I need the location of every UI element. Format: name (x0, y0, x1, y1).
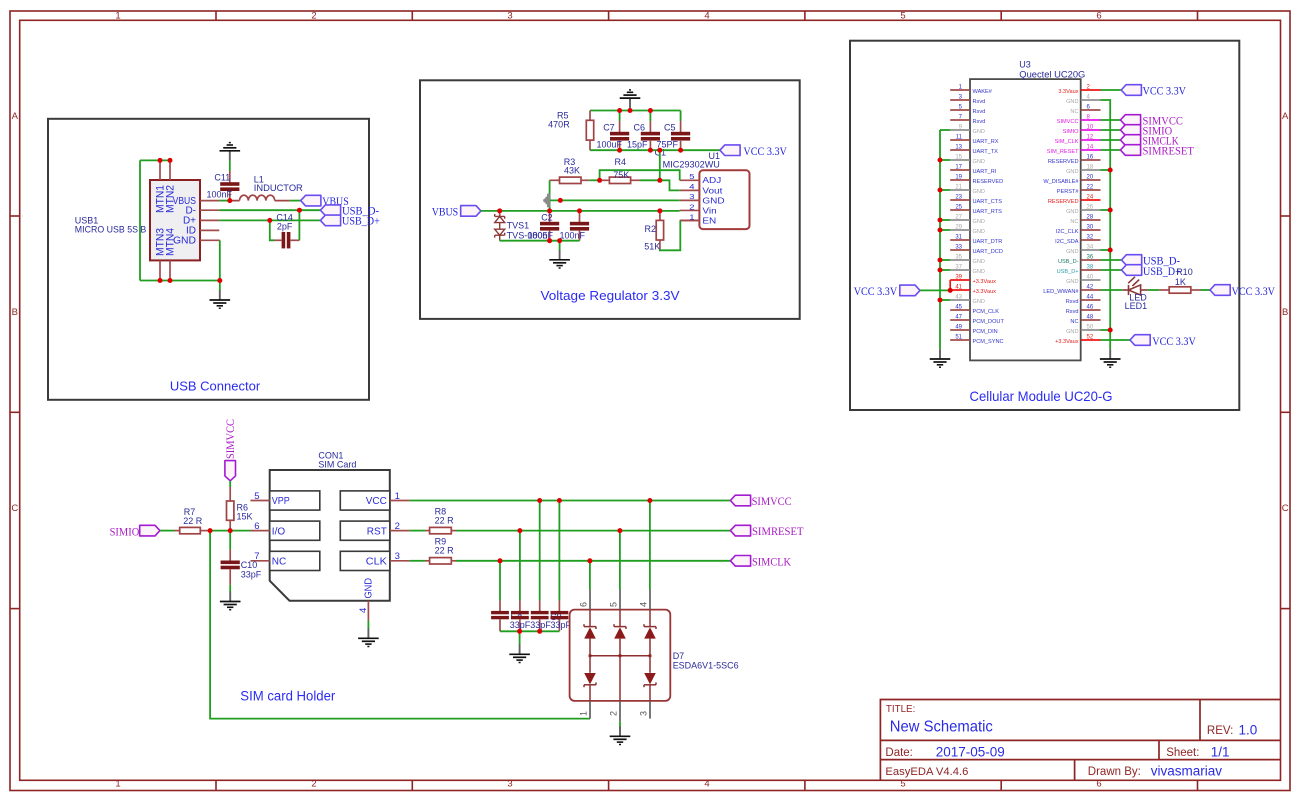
svg-text:SIM Card: SIM Card (318, 460, 356, 470)
junction (557, 238, 562, 243)
wire ADJ feedback (600, 170, 680, 180)
wire D+ to flag (219, 219, 320, 221)
svg-text:15: 15 (955, 155, 962, 161)
svg-text:2: 2 (689, 202, 695, 211)
pin cap C8 bottom (539, 619, 541, 631)
svg-text:R2: R2 (644, 224, 656, 234)
junction (1108, 328, 1113, 333)
frame column tick (804, 11, 806, 20)
wire VBUS to Vin (481, 210, 680, 212)
wire gnd pin to rail (1101, 249, 1111, 251)
wire caps gnd drop (519, 631, 521, 645)
capacitor C5 (671, 132, 690, 141)
svg-text:15pF: 15pF (627, 140, 648, 150)
svg-text:EasyEDA V4.4.6: EasyEDA V4.4.6 (885, 766, 968, 778)
svg-text:6: 6 (579, 602, 589, 607)
junction (228, 528, 233, 533)
resistor R3 (560, 177, 582, 183)
net flag SIMIO (1120, 125, 1140, 136)
svg-text:38: 38 (1087, 265, 1094, 271)
ground CON1 (358, 629, 379, 647)
wire down to cap C6cap (499, 561, 501, 601)
pin USB1 D+ (200, 219, 219, 221)
pin U3 35 GND (950, 259, 970, 261)
pin R9 left (425, 560, 430, 562)
junction (537, 629, 542, 634)
inductor L1 (230, 195, 290, 200)
pin U3 10 SIMIO (1081, 129, 1101, 131)
pin C5 bottom (680, 141, 682, 150)
wire caps gnd rail (500, 630, 559, 632)
wire CLK to D7 pin6 (589, 561, 591, 590)
wire gnd pin to rail (1101, 329, 1111, 331)
svg-text:6: 6 (254, 521, 259, 532)
svg-text:Quectel UC20G: Quectel UC20G (1019, 70, 1085, 80)
capacitor C8 (531, 611, 549, 619)
svg-text:26: 26 (1087, 205, 1094, 211)
svg-text:17: 17 (955, 165, 962, 171)
pin U3 29 GND (950, 229, 970, 231)
pin USB1 D- (200, 209, 219, 211)
capacitor C6cap (491, 611, 509, 619)
pin U3 3 Rsvd (950, 99, 970, 101)
net flag USB_D+ (320, 215, 340, 226)
svg-text:GND: GND (973, 189, 985, 195)
pin C7 bottom (619, 141, 621, 150)
svg-text:22 R: 22 R (435, 546, 455, 556)
svg-text:6: 6 (1096, 778, 1101, 789)
svg-text:1.0: 1.0 (1239, 723, 1258, 738)
net flag USB_D- (320, 205, 340, 216)
ground D7 (610, 727, 631, 745)
svg-text:A: A (1282, 111, 1289, 122)
wire C6 top (649, 111, 651, 122)
svg-text:29: 29 (955, 225, 962, 231)
pin R9 right (451, 560, 456, 562)
wire L1 to VBUS flag (290, 200, 301, 202)
wire U3 pin 21 to gnd rail (940, 189, 950, 191)
svg-text:Vin: Vin (702, 206, 716, 215)
pin USB1 GND (200, 239, 220, 241)
wire VBUS to junction (219, 200, 230, 202)
connector CON1 SIM Card body (270, 470, 390, 601)
pin CON1 6 I/O (251, 530, 270, 532)
svg-text:13: 13 (955, 145, 962, 151)
wire C14 up to D- (298, 210, 300, 240)
wire D+ down to C14 (270, 220, 274, 240)
svg-text:4: 4 (639, 602, 649, 607)
junction (498, 558, 503, 563)
svg-text:100nF: 100nF (560, 230, 586, 240)
svg-text:I/O: I/O (272, 526, 286, 537)
pin C2 bottom (549, 231, 551, 241)
pin R8 right (451, 530, 456, 532)
svg-text:1/1: 1/1 (1211, 745, 1230, 760)
svg-text:49: 49 (955, 325, 962, 331)
net flag SIMVCC right (730, 495, 750, 506)
junction (1108, 208, 1113, 213)
svg-text:2: 2 (311, 11, 316, 22)
svg-text:GND: GND (973, 229, 985, 235)
svg-text:25: 25 (955, 205, 962, 211)
svg-text:UART_CTS: UART_CTS (973, 199, 1003, 205)
wire VCC row (410, 500, 731, 502)
wire D7 pin2 to gnd (619, 722, 621, 729)
pin R7 left (175, 530, 180, 532)
svg-text:32: 32 (1087, 235, 1094, 241)
pin U3 44 Rsvd (1081, 299, 1101, 301)
svg-text:SIMRESET: SIMRESET (752, 524, 804, 538)
svg-text:VPP: VPP (272, 496, 290, 507)
pin C11 bottom (229, 191, 231, 201)
pin U1 2 Vin (680, 209, 700, 211)
net flag VCC 3.3V pin2 (1121, 85, 1141, 96)
pin U3 20 W_DISABLE# (1081, 179, 1101, 181)
junction (497, 208, 502, 213)
svg-text:TITLE:: TITLE: (886, 704, 915, 715)
svg-text:51: 51 (955, 335, 962, 341)
svg-text:I2C_CLK: I2C_CLK (1056, 229, 1079, 235)
svg-text:3: 3 (507, 11, 512, 22)
wire SIMIO net to D7 pin1 (210, 531, 590, 719)
svg-text:GND: GND (702, 196, 725, 205)
resistor R6 (227, 501, 234, 520)
wire R4 to node (640, 179, 660, 181)
ground top rail (620, 90, 641, 108)
svg-text:3: 3 (639, 711, 649, 716)
capacitor C3 (570, 222, 589, 231)
diode array D7 body (570, 610, 671, 701)
svg-text:4: 4 (689, 182, 695, 191)
svg-text:UART_RX: UART_RX (973, 139, 999, 145)
svg-text:3: 3 (689, 192, 695, 201)
svg-text:Rsvd: Rsvd (1066, 299, 1079, 305)
pin U3 45 PCM_CLK (950, 309, 970, 311)
svg-text:GND: GND (1066, 279, 1078, 285)
pin U3 42 LED_WWAN# (1081, 289, 1101, 291)
pin U3 17 UART_RI (950, 169, 970, 171)
junction (1108, 248, 1113, 253)
svg-text:C5: C5 (664, 123, 676, 133)
svg-text:GND: GND (973, 269, 985, 275)
pin R2 bottom (659, 240, 661, 250)
capacitor C7 (610, 132, 629, 141)
svg-text:44: 44 (1087, 295, 1094, 301)
pin R2 top (659, 211, 661, 221)
pin U3 23 UART_CTS (950, 199, 970, 201)
pin U3 12 SIM_CLK (1081, 139, 1101, 141)
svg-text:31: 31 (955, 235, 962, 241)
capacitor C6 (641, 132, 660, 141)
wire U3 pin 29 to gnd rail (940, 229, 950, 231)
ground USB1 GND (210, 290, 231, 308)
frame column tick (411, 11, 413, 20)
junction (517, 528, 522, 533)
wire down to cap C7cap (519, 531, 521, 601)
resistor R10 (1169, 287, 1191, 293)
pin USB1 MTN1 (159, 160, 161, 180)
svg-text:REV:: REV: (1207, 725, 1233, 737)
pin U3 4 GND (1081, 99, 1101, 101)
svg-text:42: 42 (1087, 285, 1094, 291)
pin USB1 MTN4 (169, 260, 171, 280)
wire junction to C10 (229, 531, 231, 550)
pin CON1 2 RST (390, 530, 410, 532)
svg-text:CLK: CLK (366, 557, 387, 568)
svg-text:VCC 3.3V: VCC 3.3V (854, 284, 898, 298)
pin U3 40 GND (1081, 279, 1101, 281)
wire U3 pin 9 to gnd rail (940, 129, 950, 131)
svg-text:vivasmariav: vivasmariav (1151, 763, 1223, 778)
pin R8 left (425, 530, 430, 532)
wire pin42 to LED (1101, 289, 1123, 291)
capacitor C11 (220, 182, 239, 191)
pin U3 1 WAKE# (950, 89, 970, 91)
junction (938, 158, 943, 163)
net flag SIMCLK (1120, 135, 1140, 146)
svg-text:SIMVCC: SIMVCC (1057, 119, 1079, 125)
pin R3 left (550, 179, 560, 181)
pin cap C7cap top (519, 601, 521, 613)
frame column tick (1000, 11, 1002, 20)
wire gnd to C11 (229, 161, 231, 171)
svg-text:470R: 470R (548, 119, 570, 129)
svg-text:GND: GND (973, 259, 985, 265)
wire R2 to EN (660, 220, 680, 250)
junction (597, 178, 602, 183)
wire cap rail to VCC (590, 149, 720, 151)
svg-text:37: 37 (955, 265, 962, 271)
svg-text:41: 41 (955, 285, 962, 291)
wire to SIMVCC flag (1101, 119, 1121, 121)
ground left rail (930, 349, 951, 367)
svg-text:UART_RI: UART_RI (973, 169, 997, 175)
svg-text:15K: 15K (237, 512, 253, 522)
svg-text:GND: GND (1066, 169, 1078, 175)
svg-text:28: 28 (1087, 215, 1094, 221)
svg-text:23: 23 (955, 195, 962, 201)
pin C3 bottom (579, 231, 581, 241)
junction (657, 208, 662, 213)
pin U3 7 Rsvd (950, 119, 970, 121)
junction (158, 158, 163, 163)
svg-text:UART_TX: UART_TX (973, 149, 999, 155)
svg-text:39: 39 (955, 275, 962, 281)
svg-text:46: 46 (1087, 305, 1094, 311)
pin U3 33 UART_DCD (950, 249, 970, 251)
svg-text:+3.3Vaux: +3.3Vaux (973, 279, 997, 285)
wire to USB_D- flag (1101, 259, 1122, 261)
net flag USB_D+ cell (1122, 265, 1142, 276)
junction (938, 298, 943, 303)
pin U3 27 GND (950, 219, 970, 221)
wire RST to D7 pin5 (619, 531, 621, 590)
pin U3 26 GND (1081, 209, 1101, 211)
pin U3 18 GND (1081, 169, 1101, 171)
capacitor C10 (221, 561, 240, 570)
svg-text:C: C (1282, 503, 1289, 514)
svg-text:Rsvd: Rsvd (973, 109, 986, 115)
svg-text:5: 5 (689, 172, 695, 181)
junction (217, 278, 222, 283)
pin U3 13 UART_TX (950, 149, 970, 151)
pin C14 left (274, 239, 281, 241)
svg-text:SIMIO: SIMIO (110, 525, 140, 539)
wire down to cap C8 (539, 501, 541, 601)
svg-text:VCC 3.3V: VCC 3.3V (743, 144, 787, 158)
pin U3 24 RESERVED (1081, 199, 1101, 201)
svg-text:RESERVED: RESERVED (973, 179, 1004, 185)
svg-text:VCC 3.3V: VCC 3.3V (1232, 284, 1276, 298)
svg-text:C: C (11, 503, 18, 514)
svg-text:GND: GND (1066, 99, 1078, 105)
wire node to Vout (660, 180, 680, 190)
svg-text:PERST#: PERST# (1057, 189, 1080, 195)
svg-text:SIMIO: SIMIO (1063, 129, 1079, 135)
wire SIMIO to R7 (160, 530, 175, 532)
wire VCC to D7 pin4 (649, 501, 651, 590)
junction (297, 208, 302, 213)
svg-text:UART_DTR: UART_DTR (973, 239, 1003, 245)
pin R4 left (600, 179, 610, 181)
svg-text:14: 14 (1087, 145, 1094, 151)
wire RST row (456, 530, 730, 532)
svg-text:INDUCTOR: INDUCTOR (254, 183, 304, 193)
svg-text:2: 2 (311, 778, 316, 789)
svg-text:GND: GND (1066, 209, 1078, 215)
svg-text:Rsvd: Rsvd (973, 119, 986, 125)
pin U1 EN stub (680, 219, 699, 221)
net flag USB_D- cell (1122, 255, 1142, 266)
svg-text:6: 6 (1096, 11, 1101, 22)
resistor R9 (430, 558, 452, 564)
junction (208, 528, 213, 533)
pin U1 3 GND (680, 199, 700, 201)
pin cap C6cap bottom (499, 619, 501, 631)
pin U3 38 USB_D+ (1081, 269, 1101, 271)
wire U3 pin 37 to gnd rail (940, 269, 950, 271)
svg-text:35: 35 (955, 255, 962, 261)
junction (938, 258, 943, 263)
svg-text:GND: GND (1066, 249, 1078, 255)
svg-text:36: 36 (1087, 255, 1094, 261)
svg-text:NC: NC (272, 557, 286, 568)
svg-text:100nF: 100nF (207, 190, 233, 200)
svg-text:40: 40 (1087, 275, 1094, 281)
pin U3 5 Rsvd (950, 109, 970, 111)
wire to SIMIO flag (1101, 129, 1121, 131)
pin U3 49 PCM_DIN (950, 329, 970, 331)
svg-text:3: 3 (507, 778, 512, 789)
svg-text:1: 1 (579, 711, 589, 716)
svg-text:C10: C10 (241, 560, 258, 570)
wire C10 to gnd (229, 585, 231, 592)
junction (648, 148, 653, 153)
pin U3 31 UART_DTR (950, 239, 970, 241)
resistor R7 (180, 527, 201, 533)
pin U3 6 NC (1081, 109, 1101, 111)
junction (267, 218, 272, 223)
svg-text:Rsvd: Rsvd (973, 99, 986, 105)
svg-text:33pF: 33pF (241, 569, 262, 579)
pin U3 16 RESERVED (1081, 159, 1101, 161)
wire U3 pin 27 to gnd rail (940, 219, 950, 221)
junction (158, 278, 163, 283)
frame column tick (1197, 11, 1199, 20)
junction (617, 528, 622, 533)
pin U1 5 ADJ (680, 179, 700, 181)
svg-text:5: 5 (900, 778, 905, 789)
junction (617, 108, 622, 113)
net flag VBUS (301, 195, 321, 206)
pin U3 25 UART_RTS (950, 209, 970, 211)
pin U3 51 PCM_SYNC (950, 339, 970, 341)
pin CON1 4 GND (367, 601, 369, 621)
pin U3 39 +3.3Vaux (950, 279, 970, 281)
svg-text:UART_DCD: UART_DCD (973, 249, 1003, 255)
pin U3 28 NC (1081, 219, 1101, 221)
ground C10 (220, 592, 241, 610)
pin USB1 MTN3 (159, 260, 161, 280)
svg-text:4: 4 (704, 778, 709, 789)
svg-text:21: 21 (955, 185, 962, 191)
svg-text:RST: RST (367, 526, 387, 537)
pin U3 37 GND (950, 269, 970, 271)
svg-text:50: 50 (1087, 325, 1094, 331)
svg-text:LED_WWAN#: LED_WWAN# (1043, 289, 1079, 295)
wire pin4 to gnd (367, 621, 369, 629)
net flag SIMIO (140, 525, 160, 536)
svg-text:48: 48 (1087, 315, 1094, 321)
svg-text:VCC 3.3V: VCC 3.3V (1143, 84, 1187, 98)
svg-text:1K: 1K (1175, 277, 1186, 287)
pin C10 top (229, 550, 231, 562)
wire gnd pin to rail (1101, 209, 1111, 211)
net flag SIMVCC (1120, 115, 1140, 126)
net flag SIMCLK (730, 556, 750, 567)
pin U3 21 GND (950, 189, 970, 191)
svg-text:WAKE#: WAKE# (973, 89, 993, 95)
title block outline (880, 700, 1280, 781)
wire TVS C2 C3 gnd rail (500, 240, 580, 242)
svg-text:PCM_DIN: PCM_DIN (973, 329, 998, 335)
svg-text:GND: GND (973, 299, 985, 305)
svg-text:2: 2 (395, 521, 400, 532)
svg-text:33pF: 33pF (510, 620, 531, 630)
wire top rail (590, 110, 681, 112)
svg-text:RESERVED: RESERVED (1048, 199, 1079, 205)
pin R7 right (200, 530, 210, 532)
svg-text:18: 18 (1087, 165, 1094, 171)
pin U3 19 RESERVED (950, 179, 970, 181)
pin U3 48 NC (1081, 319, 1101, 321)
svg-text:R10: R10 (1176, 267, 1193, 277)
junction (577, 208, 582, 213)
svg-text:GND: GND (973, 129, 985, 135)
cursor artifact (543, 194, 550, 208)
pin C7 top (619, 121, 621, 133)
svg-text:19: 19 (955, 175, 962, 181)
wire LED to R10 (1148, 289, 1160, 291)
svg-text:22: 22 (1087, 185, 1094, 191)
svg-text:SIM_RESET: SIM_RESET (1047, 149, 1079, 155)
svg-text:34: 34 (1087, 245, 1094, 251)
resistor R4 (609, 177, 630, 183)
svg-text:New Schematic: New Schematic (890, 718, 993, 735)
svg-text:SIMCLK: SIMCLK (752, 554, 791, 568)
svg-text:EN: EN (702, 216, 716, 225)
pin U1 1 EN (680, 220, 700, 222)
